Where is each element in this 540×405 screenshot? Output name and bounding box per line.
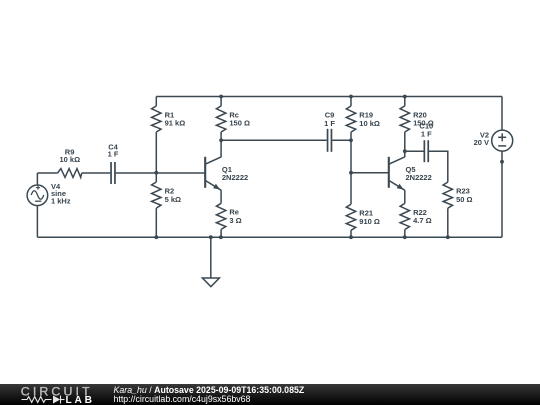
wire Q1 emitter to Re xyxy=(220,190,222,203)
capacitor C10 xyxy=(419,122,433,163)
node Rc top rail xyxy=(219,95,223,99)
resistor Re xyxy=(216,203,241,237)
node ground junction xyxy=(209,235,213,239)
wire right supply rail upper (to V2 +) xyxy=(501,97,503,131)
svg-text:91 kΩ: 91 kΩ xyxy=(165,119,186,128)
node Q5 base / R19 / R21 xyxy=(349,171,353,175)
svg-text:20 V: 20 V xyxy=(474,138,489,147)
node Q1 base / R1 / R2 xyxy=(154,171,158,175)
capacitor C9 xyxy=(324,111,335,152)
svg-text:1 F: 1 F xyxy=(324,119,335,128)
footer line 2 xyxy=(114,394,251,404)
resistor R22 xyxy=(400,203,432,237)
svg-text:150 Ω: 150 Ω xyxy=(229,119,250,128)
svg-text:1 kHz: 1 kHz xyxy=(51,196,71,205)
node Q1 collector / Rc / C9 xyxy=(219,138,223,142)
resistor R2 xyxy=(152,173,181,238)
svg-text:5 kΩ: 5 kΩ xyxy=(165,195,181,204)
svg-text:LAB: LAB xyxy=(66,395,95,405)
svg-text:2N2222: 2N2222 xyxy=(406,173,432,182)
voltage source V2 (20 V DC) xyxy=(474,130,513,151)
node R20 top rail xyxy=(403,95,407,99)
wire ground stub xyxy=(210,237,212,278)
node R2 bottom xyxy=(154,235,158,239)
svg-text:910 Ω: 910 Ω xyxy=(359,217,380,226)
svg-text:10 kΩ: 10 kΩ xyxy=(359,119,380,128)
wire C10 to R23 corner xyxy=(429,151,448,182)
wire C4 to Q1 base (through node at x=156) xyxy=(116,172,206,174)
wire bottom ground rail xyxy=(37,236,502,238)
resistor R19 xyxy=(346,97,380,141)
node R23 bottom xyxy=(446,235,450,239)
wire Q5 collector node to C10 xyxy=(405,150,424,152)
wire V4 to R9 xyxy=(37,172,57,174)
node R19 top rail xyxy=(349,95,353,99)
node R21 bottom xyxy=(349,235,353,239)
CircuitLab logo xyxy=(0,384,100,405)
node R22 bottom xyxy=(403,235,407,239)
svg-text:2N2222: 2N2222 xyxy=(222,173,248,182)
resistor R1 xyxy=(152,97,186,173)
wire Q5 collector xyxy=(404,151,406,157)
svg-text:50 Ω: 50 Ω xyxy=(456,195,472,204)
wire Q1 collector xyxy=(220,140,222,157)
wire Q5 base xyxy=(351,172,389,174)
wire Rc node to C9 xyxy=(221,139,327,141)
node V2 bottom terminal xyxy=(500,160,504,164)
wire R9 to C4 xyxy=(82,172,111,174)
capacitor C4 xyxy=(108,143,119,184)
node Q5 collector / R20 / C10 xyxy=(403,149,407,153)
svg-text:1 F: 1 F xyxy=(421,130,432,139)
svg-text:1 F: 1 F xyxy=(108,150,119,159)
resistor Rc xyxy=(216,97,250,141)
transistor Q5 xyxy=(389,157,432,190)
node Re bottom xyxy=(219,235,223,239)
wire V4 bottom lead xyxy=(36,206,38,238)
resistor R9 xyxy=(58,148,82,178)
svg-text:10 kΩ: 10 kΩ xyxy=(59,155,80,164)
svg-text:4.7 Ω: 4.7 Ω xyxy=(413,216,432,225)
node C9 / R19 / R21 xyxy=(349,138,353,142)
resistor R20 xyxy=(400,97,434,152)
footer line 1 xyxy=(114,385,305,395)
wire R19 node down to base node xyxy=(350,140,352,172)
svg-text:3 Ω: 3 Ω xyxy=(229,216,241,225)
wire top supply rail xyxy=(156,96,502,98)
wire V4 top lead xyxy=(36,173,38,185)
resistor R23 xyxy=(443,182,472,237)
wire Q5 emitter to R22 xyxy=(404,190,406,203)
transistor Q1 xyxy=(205,157,248,190)
resistor R21 xyxy=(346,173,380,238)
voltage source V4 (sine) xyxy=(27,182,71,206)
wire C9 to R19 node xyxy=(332,139,351,141)
ground xyxy=(202,278,219,287)
wire right rail lower (V2 - to bottom) xyxy=(501,151,503,237)
